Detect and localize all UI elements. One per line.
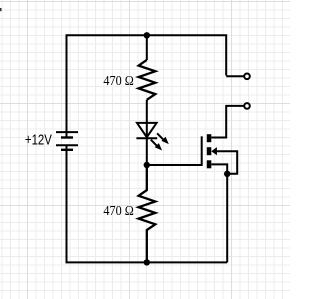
wire source lead down to bottom rail bbox=[211, 164, 227, 262]
resistor R1 zigzag bbox=[139, 60, 156, 100]
resistor R2 zigzag bbox=[139, 165, 156, 262]
MOSFET M1 channel tick drain bbox=[207, 134, 212, 142]
svg-text:+12V: +12V bbox=[25, 132, 52, 149]
node junction bottom rail / R2 bbox=[144, 259, 150, 265]
LED D1 cathode bar bbox=[136, 137, 157, 139]
node junction source / body bbox=[224, 171, 230, 177]
wire drain lead to terminal 2 bbox=[211, 106, 243, 138]
terminal 2 open circle bbox=[244, 103, 250, 109]
wire LED to node bbox=[146, 138, 148, 165]
battery B1 long plate 1 bbox=[56, 131, 78, 133]
node junction LED / gate / R2 bbox=[144, 162, 150, 168]
screen-edge artifact top-left bbox=[0, 8, 2, 11]
wire battery - to bottom rail bbox=[67, 145, 228, 262]
LED D1 emission arrow 2 shaft bbox=[151, 140, 157, 146]
battery B1 short plate 1 bbox=[61, 136, 73, 138]
MOSFET M1 channel tick body bbox=[207, 147, 212, 155]
battery B1 short plate 2 bbox=[61, 149, 73, 151]
LED D1 emission arrow 1 head bbox=[161, 137, 168, 144]
wire R1 to LED bbox=[146, 100, 148, 123]
MOSFET M1 body arrowhead bbox=[211, 147, 217, 155]
terminal 1 open circle bbox=[244, 74, 250, 80]
LED D1 emission arrow 1 shaft bbox=[157, 133, 164, 140]
battery B1 inner stub 1 bbox=[66, 132, 68, 137]
wire top rail: battery + to terminal branch bbox=[67, 35, 227, 131]
MOSFET M1 gate bar bbox=[201, 136, 203, 166]
LED D1 emission arrow 2 head bbox=[155, 143, 162, 150]
wire body to source junction bbox=[217, 151, 238, 174]
svg-text:470 Ω: 470 Ω bbox=[103, 74, 133, 89]
wire center vertical through LED bbox=[146, 35, 148, 60]
wire gate: node to MOSFET gate bbox=[147, 164, 202, 166]
MOSFET M1 channel tick source bbox=[207, 160, 212, 168]
LED D1 triangle bbox=[137, 123, 157, 137]
node junction top rail / R1 bbox=[144, 32, 150, 38]
battery B1 long plate 2 bbox=[56, 144, 78, 146]
svg-text:470 Ω: 470 Ω bbox=[103, 204, 133, 219]
LED D1 anode stem bbox=[146, 123, 148, 137]
wire terminal 1 lead bbox=[226, 75, 243, 77]
